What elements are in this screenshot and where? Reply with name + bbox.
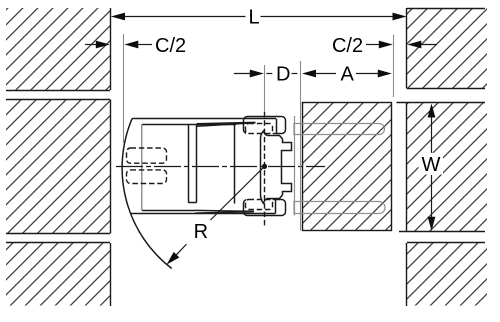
svg-text:C/2: C/2 [155, 35, 186, 57]
svg-text:L: L [248, 6, 259, 28]
svg-text:W: W [422, 154, 441, 176]
svg-text:A: A [341, 63, 355, 85]
svg-text:R: R [194, 221, 208, 243]
svg-text:D: D [276, 63, 290, 85]
svg-text:C/2: C/2 [332, 35, 363, 57]
